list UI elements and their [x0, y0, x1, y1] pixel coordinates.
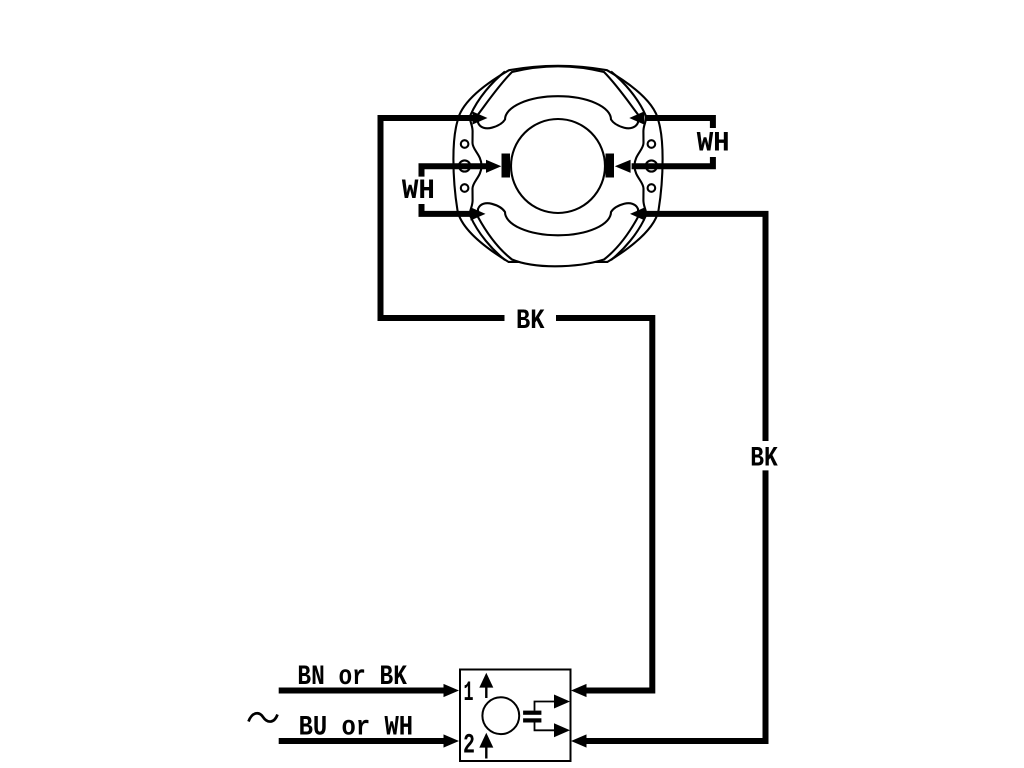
svg-text:BU or WH: BU or WH: [299, 713, 414, 744]
wire: top-left WH lead and left vertical BK run: [381, 118, 505, 318]
wire: middle-right WH lead: [632, 157, 713, 166]
svg-text:BK: BK: [750, 444, 778, 475]
left ear bolt hole middle: [459, 160, 470, 171]
wire: BK horizontal run right of label down to control box: [556, 318, 652, 691]
capacitor C1 plate top: [523, 711, 541, 715]
arrowhead middle-left into stator: [486, 160, 501, 173]
left ear bolt hole top: [461, 140, 469, 148]
arrowhead middle-right into stator: [615, 160, 631, 173]
rotor bore: [511, 119, 605, 213]
terminal 2 up arrow shaft: [485, 746, 487, 759]
arrowhead bottom-right into stator: [630, 207, 645, 220]
arrowhead into control box right upper: [571, 684, 587, 697]
capacitor arrow lower: [554, 723, 570, 737]
control box motor circle: [482, 697, 519, 734]
AC mains tilde symbol: [249, 713, 278, 721]
right ear bolt hole top: [648, 140, 656, 148]
terminal 1 up arrow shaft: [485, 686, 487, 698]
arrowhead top-right into stator: [629, 111, 644, 124]
left pole magnet block: [502, 154, 511, 178]
arrowhead into control box right lower: [571, 734, 587, 747]
wire: bottom-left WH lead: [422, 204, 470, 214]
capacitor lead lower: [535, 723, 555, 731]
motor M1 stator housing outline: [453, 66, 662, 262]
right clamp channel edge: [611, 72, 646, 261]
capacitor lead upper: [535, 702, 555, 711]
arrowhead input 2 into control box: [444, 734, 460, 747]
arrowhead input 1 into control box: [444, 684, 460, 697]
bottom stator pole shoe: [478, 203, 638, 266]
wire: right vertical BK run (lower) into control box: [587, 470, 766, 741]
right ear bolt hole middle: [646, 160, 657, 171]
capacitor C1 plate bottom: [523, 718, 541, 722]
capacitor arrow upper: [554, 695, 570, 709]
terminal 2 up arrow head: [479, 733, 493, 748]
right pole magnet block: [606, 154, 615, 178]
svg-text:1: 1: [464, 678, 474, 709]
svg-text:2: 2: [463, 731, 475, 762]
wire: top-right WH lead: [645, 118, 713, 128]
terminal 1 up arrow head: [479, 673, 493, 688]
arrowhead top-left into stator: [473, 112, 488, 125]
svg-text:WH: WH: [697, 129, 730, 160]
svg-text:BN or BK: BN or BK: [297, 662, 407, 693]
top stator pole shoe: [478, 66, 638, 128]
left ear bolt hole bottom: [461, 184, 469, 192]
svg-text:BK: BK: [516, 306, 545, 337]
arrowhead bottom-left into stator: [471, 207, 486, 220]
svg-text:WH: WH: [402, 176, 435, 207]
wire: middle-left WH lead: [422, 166, 489, 176]
wire: mains input line 2 BU or WH: [279, 738, 444, 744]
wire: mains input line 1 BN or BK: [279, 688, 444, 694]
wire: bottom-right WH lead and right vertical BK run (upper): [646, 214, 766, 441]
left clamp channel edge: [470, 72, 505, 261]
right ear bolt hole bottom: [648, 184, 656, 192]
control box U1 outline: [460, 670, 571, 762]
